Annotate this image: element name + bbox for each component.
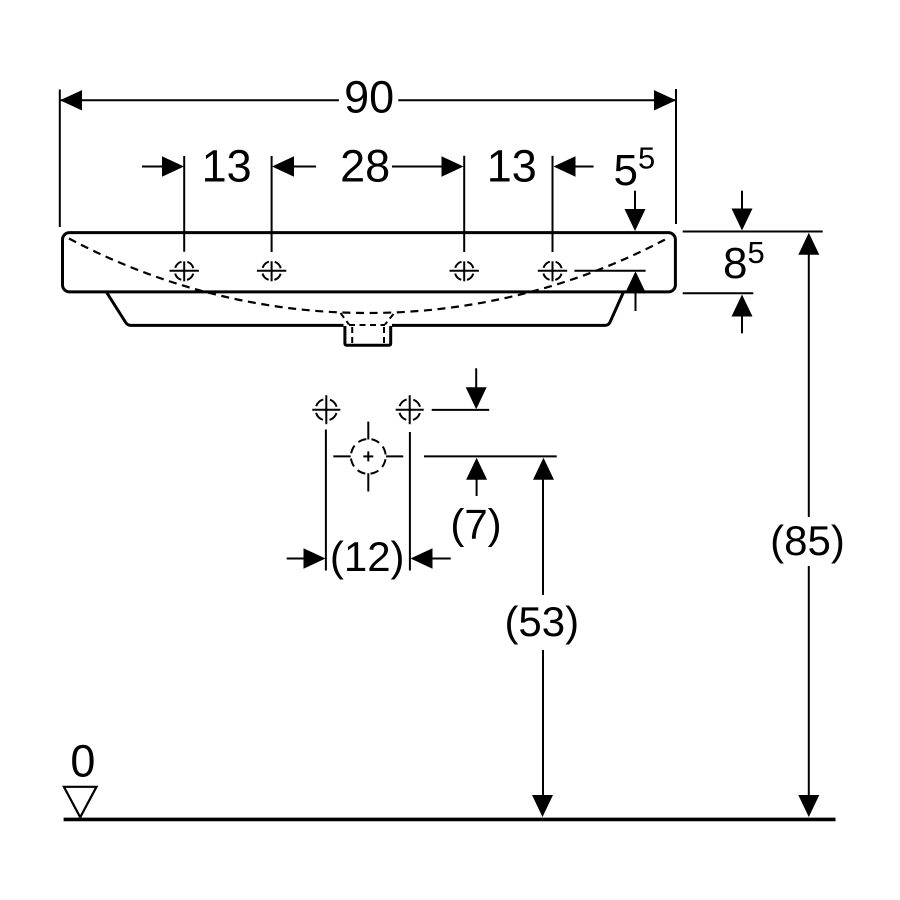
- dimension arrow 13 left: [142, 156, 184, 176]
- reference line top 8.5: [683, 231, 823, 233]
- extension line hole A: [325, 430, 327, 571]
- drain box dashed top: [349, 324, 385, 326]
- svg-text:(12): (12): [330, 533, 405, 580]
- svg-text:(7): (7): [450, 501, 501, 548]
- dimension arrow 5.5 up: [625, 271, 646, 311]
- svg-text:(53): (53): [504, 598, 579, 645]
- tap hole H4: [538, 261, 567, 281]
- datum triangle: [64, 787, 97, 818]
- extension line hole1: [183, 156, 185, 252]
- svg-text:0: 0: [70, 735, 95, 786]
- dimension arrow (12) right: [411, 548, 451, 568]
- basin inner dashed curve: [69, 239, 667, 313]
- drain funnel dashed left: [341, 313, 350, 325]
- extension line right of 90: [675, 89, 677, 224]
- dimension line (85): [798, 233, 819, 817]
- svg-text:(85): (85): [770, 517, 845, 564]
- reference line bottom 8.5: [683, 292, 754, 294]
- drain box dashed inner left: [351, 327, 353, 345]
- dimension arrow (12) left: [287, 548, 326, 568]
- basin lower body right: [392, 293, 623, 326]
- tap hole H3: [450, 261, 479, 281]
- basin lower body left: [107, 293, 344, 326]
- dimension arrow 8.5 up: [732, 295, 753, 334]
- basin outline: [63, 233, 676, 292]
- drain box dashed inner right: [383, 327, 385, 345]
- fixation hole B: [396, 395, 424, 424]
- extension line hole B: [409, 432, 411, 571]
- extension line hole3: [463, 156, 465, 252]
- dimension arrow (7) up: [466, 458, 487, 496]
- tap hole H1: [170, 261, 199, 281]
- ground line: [64, 818, 836, 822]
- leader line hole4: [574, 270, 645, 272]
- svg-text:90: 90: [344, 72, 394, 123]
- drain funnel dashed right: [385, 314, 394, 325]
- extension line hole2: [271, 156, 273, 252]
- dimension arrow 8.5 down: [732, 191, 753, 231]
- svg-text:13: 13: [202, 141, 252, 192]
- dimension line 28: [272, 156, 464, 176]
- dimension line (53): [532, 458, 554, 817]
- drain box: [345, 326, 391, 345]
- reference line holes AB: [432, 409, 490, 411]
- extension line left of 90: [59, 90, 61, 228]
- tap hole H2: [257, 261, 286, 281]
- extension line hole4: [552, 156, 554, 252]
- reference line siphon center: [424, 455, 557, 457]
- siphon hole C: [333, 422, 403, 492]
- dimension arrow (7) down: [466, 368, 487, 409]
- fixation hole A: [312, 395, 340, 424]
- svg-text:13: 13: [487, 141, 537, 192]
- svg-text:28: 28: [340, 141, 390, 192]
- dimension arrow 55 left: [554, 156, 594, 176]
- dimension line 90: [60, 90, 676, 110]
- dimension arrow 5.5 down: [625, 191, 646, 231]
